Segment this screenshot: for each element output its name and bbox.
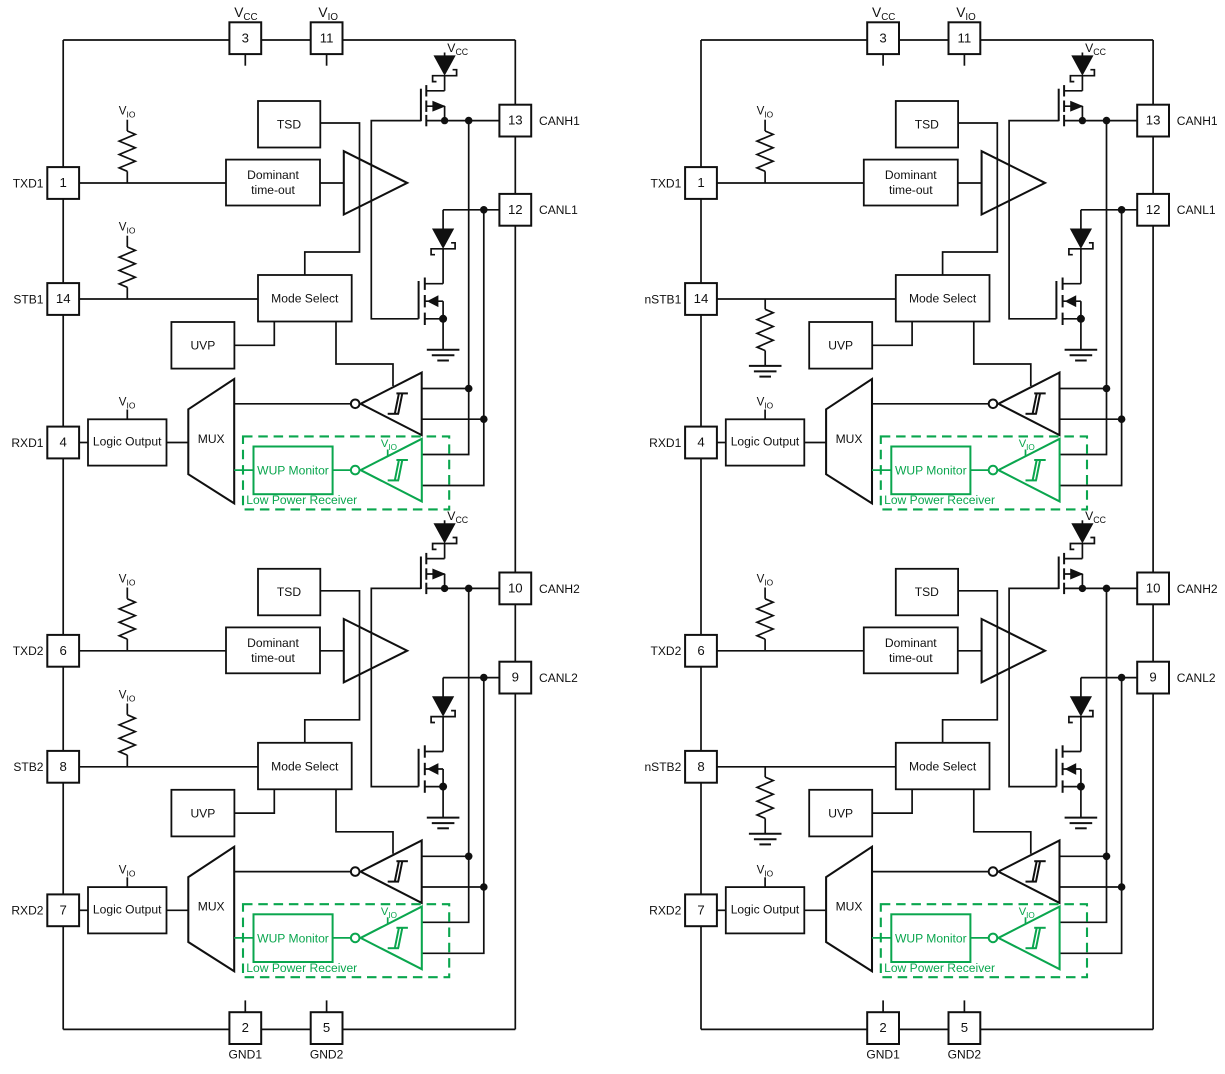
svg-text:CANL1: CANL1 (1177, 203, 1216, 217)
svg-text:7: 7 (697, 902, 704, 917)
svg-text:CANH2: CANH2 (1177, 582, 1218, 596)
svg-text:RXD2: RXD2 (649, 904, 681, 918)
svg-text:WUP Monitor: WUP Monitor (895, 464, 967, 478)
svg-text:VIO: VIO (119, 688, 136, 703)
svg-text:WUP Monitor: WUP Monitor (895, 931, 967, 945)
svg-text:Mode Select: Mode Select (271, 759, 339, 773)
svg-text:MUX: MUX (836, 432, 863, 446)
svg-text:Mode Select: Mode Select (909, 759, 977, 773)
svg-text:time-out: time-out (889, 651, 933, 665)
svg-text:Dominant: Dominant (247, 168, 299, 182)
svg-text:13: 13 (508, 113, 523, 128)
svg-text:UVP: UVP (190, 339, 215, 353)
svg-text:time-out: time-out (251, 651, 295, 665)
svg-text:MUX: MUX (198, 900, 225, 914)
svg-text:VIO: VIO (119, 221, 136, 236)
svg-text:CANH2: CANH2 (539, 582, 580, 596)
svg-text:7: 7 (60, 902, 67, 917)
svg-text:CANL2: CANL2 (1177, 671, 1216, 685)
svg-text:VIO: VIO (757, 863, 774, 878)
svg-text:3: 3 (242, 30, 249, 45)
svg-text:CANH1: CANH1 (1177, 114, 1218, 128)
svg-text:8: 8 (60, 759, 67, 774)
svg-text:CANL2: CANL2 (539, 671, 578, 685)
svg-text:VIO: VIO (381, 906, 397, 920)
svg-text:TXD1: TXD1 (13, 176, 44, 190)
svg-text:4: 4 (697, 435, 704, 450)
svg-text:STB1: STB1 (13, 292, 43, 306)
svg-text:VIO: VIO (119, 863, 136, 878)
svg-text:GND1: GND1 (866, 1048, 900, 1062)
svg-text:Logic Output: Logic Output (731, 903, 800, 917)
svg-text:Dominant: Dominant (885, 636, 937, 650)
svg-text:VIO: VIO (381, 438, 397, 452)
svg-text:TSD: TSD (915, 117, 939, 131)
svg-text:RXD1: RXD1 (11, 436, 43, 450)
svg-text:VCC: VCC (447, 509, 468, 525)
svg-text:Low Power Receiver: Low Power Receiver (884, 493, 995, 507)
svg-text:VIO: VIO (757, 572, 774, 587)
svg-text:Low Power Receiver: Low Power Receiver (246, 493, 357, 507)
svg-text:nSTB1: nSTB1 (644, 292, 681, 306)
svg-text:TXD2: TXD2 (13, 644, 44, 658)
svg-text:VIO: VIO (119, 105, 136, 120)
svg-text:1: 1 (60, 175, 67, 190)
svg-text:Mode Select: Mode Select (909, 292, 977, 306)
svg-text:9: 9 (1149, 670, 1156, 685)
svg-text:time-out: time-out (251, 183, 295, 197)
svg-text:VIO: VIO (1019, 906, 1035, 920)
svg-text:6: 6 (60, 643, 67, 658)
svg-text:2: 2 (242, 1020, 249, 1035)
svg-text:11: 11 (320, 30, 334, 45)
svg-text:VCC: VCC (1085, 41, 1106, 57)
svg-text:GND2: GND2 (310, 1048, 344, 1062)
svg-text:CANH1: CANH1 (539, 114, 580, 128)
svg-text:UVP: UVP (828, 339, 853, 353)
svg-text:12: 12 (1146, 202, 1161, 217)
svg-text:VIO: VIO (757, 105, 774, 120)
svg-text:WUP Monitor: WUP Monitor (257, 931, 329, 945)
svg-text:VIO: VIO (956, 5, 976, 23)
svg-text:CANL1: CANL1 (539, 203, 578, 217)
svg-text:VCC: VCC (872, 5, 895, 23)
svg-text:5: 5 (961, 1020, 968, 1035)
svg-text:3: 3 (879, 30, 886, 45)
svg-text:GND1: GND1 (229, 1048, 263, 1062)
svg-text:nSTB2: nSTB2 (644, 760, 681, 774)
svg-text:10: 10 (1146, 581, 1161, 596)
svg-text:Low Power Receiver: Low Power Receiver (246, 961, 357, 975)
svg-text:TSD: TSD (915, 585, 939, 599)
svg-text:Dominant: Dominant (247, 636, 299, 650)
svg-text:UVP: UVP (190, 806, 215, 820)
svg-text:WUP Monitor: WUP Monitor (257, 464, 329, 478)
svg-text:14: 14 (694, 291, 709, 306)
svg-text:TXD2: TXD2 (651, 644, 682, 658)
svg-text:Logic Output: Logic Output (93, 903, 162, 917)
svg-text:VCC: VCC (234, 5, 257, 23)
svg-text:Mode Select: Mode Select (271, 292, 339, 306)
svg-text:GND2: GND2 (948, 1048, 982, 1062)
svg-text:11: 11 (958, 30, 972, 45)
svg-text:Logic Output: Logic Output (93, 435, 162, 449)
svg-text:8: 8 (697, 759, 704, 774)
svg-text:Low Power Receiver: Low Power Receiver (884, 961, 995, 975)
svg-text:9: 9 (512, 670, 519, 685)
svg-text:1: 1 (697, 175, 704, 190)
svg-text:TSD: TSD (277, 117, 301, 131)
svg-text:TXD1: TXD1 (651, 176, 682, 190)
svg-text:TSD: TSD (277, 585, 301, 599)
svg-text:12: 12 (508, 202, 523, 217)
svg-text:VIO: VIO (119, 572, 136, 587)
svg-text:4: 4 (60, 435, 67, 450)
svg-text:14: 14 (56, 291, 71, 306)
svg-text:UVP: UVP (828, 806, 853, 820)
svg-text:RXD2: RXD2 (11, 904, 43, 918)
svg-text:VIO: VIO (1019, 438, 1035, 452)
svg-text:VCC: VCC (1085, 509, 1106, 525)
svg-text:6: 6 (697, 643, 704, 658)
svg-text:13: 13 (1146, 113, 1161, 128)
svg-text:MUX: MUX (198, 432, 225, 446)
svg-text:VIO: VIO (318, 5, 338, 23)
svg-text:Dominant: Dominant (885, 168, 937, 182)
svg-text:MUX: MUX (836, 900, 863, 914)
svg-text:Logic Output: Logic Output (731, 435, 800, 449)
svg-text:10: 10 (508, 581, 523, 596)
svg-text:2: 2 (879, 1020, 886, 1035)
svg-text:VIO: VIO (757, 396, 774, 411)
svg-text:5: 5 (323, 1020, 330, 1035)
svg-text:VIO: VIO (119, 396, 136, 411)
svg-text:RXD1: RXD1 (649, 436, 681, 450)
svg-text:VCC: VCC (447, 41, 468, 57)
svg-text:time-out: time-out (889, 183, 933, 197)
svg-text:STB2: STB2 (13, 760, 43, 774)
